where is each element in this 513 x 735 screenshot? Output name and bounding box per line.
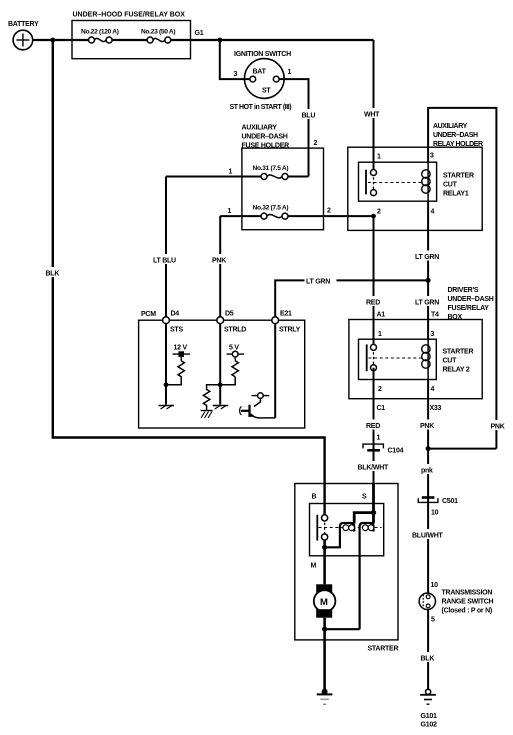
svg-text:C104: C104 (388, 448, 404, 455)
svg-text:E21: E21 (280, 311, 292, 318)
under-hood fuse/relay box (72, 12, 191, 59)
svg-text:STARTER: STARTER (443, 349, 474, 356)
svg-text:4: 4 (431, 386, 435, 393)
motor M (311, 547, 336, 617)
solenoid coil 2 (hold-in) (325, 523, 374, 629)
svg-text:UNDER–DASH: UNDER–DASH (242, 134, 288, 141)
svg-text:FUSE HOLDER: FUSE HOLDER (242, 143, 290, 150)
wire RED (relay2 pin2 to C104) (365, 368, 385, 444)
svg-text:12 V: 12 V (174, 345, 188, 352)
svg-text:STRLD: STRLD (224, 327, 246, 334)
resistor (STRLD pull-up) (220, 361, 238, 385)
wire LT BLU (152, 177, 180, 318)
wire PNK (211, 216, 230, 317)
solenoid coil 1 (pull-in) (325, 523, 355, 547)
svg-text:2: 2 (314, 140, 318, 147)
wire between fuses (112, 39, 150, 41)
resistor (STS pull-up) (166, 361, 184, 385)
svg-text:DRIVER'S: DRIVER'S (448, 287, 479, 294)
fuse No.22 (120 A) (81, 29, 119, 44)
svg-text:1: 1 (228, 208, 232, 215)
svg-text:UNDER–DASH: UNDER–DASH (433, 132, 478, 139)
wire BLK/WHT (C104 to starter S) (357, 450, 391, 512)
node LT GRN junction (426, 278, 431, 283)
PCM terminal D5 (STRLD) (217, 311, 246, 334)
svg-text:BLU: BLU (302, 113, 316, 120)
svg-text:CUT: CUT (443, 182, 458, 189)
PCM box (139, 311, 305, 428)
svg-text:No.22 (120 A): No.22 (120 A) (81, 29, 119, 36)
wire X33 / PNK (relay2 pin4 down) (419, 380, 442, 498)
svg-text:ST: ST (262, 88, 271, 95)
svg-text:C501: C501 (442, 498, 458, 505)
node G1 / wire to ignition and WHT drop (171, 30, 374, 40)
svg-text:LT GRN: LT GRN (415, 254, 439, 261)
driver's under-dash fuse/relay box (349, 287, 494, 399)
wire battery to fuse box (top feed) (33, 39, 92, 41)
svg-text:5 V: 5 V (229, 345, 239, 352)
svg-text:No.31 (7.5 A): No.31 (7.5 A) (253, 165, 289, 172)
node STS junction (164, 382, 169, 387)
svg-text:5: 5 (431, 617, 435, 624)
ground (PCM STRLD) (213, 406, 229, 410)
svg-text:CUT: CUT (443, 358, 458, 365)
wire S thick path (354, 484, 376, 524)
svg-text:LT GRN: LT GRN (415, 300, 439, 307)
ground G101/G102 (420, 689, 437, 728)
svg-text:FUSE/RELAY: FUSE/RELAY (448, 305, 490, 312)
svg-text:BAT: BAT (253, 69, 267, 76)
svg-text:3: 3 (431, 331, 435, 338)
svg-text:4: 4 (431, 209, 435, 216)
svg-text:AUXILIARY: AUXILIARY (433, 123, 468, 130)
wire motor to ground (322, 618, 327, 692)
svg-text:BATTERY: BATTERY (8, 21, 39, 28)
node battery junction (50, 38, 55, 43)
PCM terminal E21 (STRLY) (272, 311, 301, 334)
fuse No.23 (50 A) (141, 29, 175, 44)
ground (PCM STS) (159, 406, 175, 410)
wire WHT (drop to relay 1 pin 1) (363, 40, 384, 173)
svg-text:10: 10 (431, 582, 439, 589)
node solenoid contact junction (322, 540, 327, 550)
wire LT GRN horizontal to PCM E21 (275, 275, 428, 317)
svg-text:(Closed : P or N): (Closed : P or N) (442, 608, 492, 615)
svg-text:RELAY HOLDER: RELAY HOLDER (433, 141, 483, 148)
svg-text:RELAY 2: RELAY 2 (443, 367, 470, 374)
svg-text:WHT: WHT (364, 112, 380, 119)
wire to ignition switch terminal 3 (220, 40, 250, 79)
wire relay1 pin4 / LT GRN vertical (414, 201, 443, 339)
wire BLK (to ground G101/G102) (420, 610, 438, 690)
svg-text:1: 1 (378, 331, 382, 338)
svg-text:STARTER: STARTER (368, 646, 399, 653)
svg-text:D4: D4 (171, 311, 180, 318)
battery (8, 21, 39, 50)
svg-text:X33: X33 (430, 405, 442, 412)
svg-text:1: 1 (229, 169, 233, 176)
wire PNK (right side label) (489, 420, 508, 431)
connector C104 (363, 444, 404, 454)
svg-text:2: 2 (378, 386, 382, 393)
svg-text:T4: T4 (431, 312, 439, 319)
wire RED (relay1 pin2 down to relay2 pin1) (365, 216, 385, 347)
svg-text:2: 2 (377, 209, 381, 216)
svg-text:PNK: PNK (420, 423, 434, 430)
chassis ground (divider) (201, 411, 213, 419)
svg-text:RED: RED (366, 300, 380, 307)
svg-text:ST HOT in START (III): ST HOT in START (III) (230, 104, 292, 111)
svg-text:STRLY: STRLY (279, 327, 301, 334)
auxiliary under-dash relay holder (348, 123, 483, 230)
relay starter cut relay 1 (359, 153, 474, 216)
svg-text:A1: A1 (377, 312, 386, 319)
svg-text:LT GRN: LT GRN (306, 279, 330, 286)
transmission range switch (419, 590, 493, 624)
svg-text:BOX: BOX (448, 314, 463, 321)
svg-text:LT BLU: LT BLU (153, 258, 176, 265)
svg-text:STARTER: STARTER (443, 173, 474, 180)
svg-text:TRANSMISSION: TRANSMISSION (442, 590, 493, 597)
wire BLU/WHT (411, 502, 446, 593)
svg-text:BLK: BLK (421, 656, 435, 663)
svg-text:UNDER–DASH: UNDER–DASH (448, 296, 494, 303)
wire relay1 pin3 to PNK right drop (428, 108, 496, 449)
svg-text:G101: G101 (421, 713, 437, 720)
svg-text:PNK: PNK (491, 424, 505, 431)
svg-text:IGNITION SWITCH: IGNITION SWITCH (234, 51, 291, 58)
node PNK junction (426, 446, 497, 451)
starter box (295, 484, 399, 653)
svg-text:No.32 (7.5 A): No.32 (7.5 A) (253, 205, 289, 212)
transistor (STRLY driver) (240, 393, 276, 418)
svg-text:UNDER–HOOD FUSE/RELAY BOX: UNDER–HOOD FUSE/RELAY BOX (73, 12, 186, 19)
svg-text:RED: RED (366, 423, 380, 430)
svg-text:B: B (312, 494, 317, 501)
svg-text:M: M (311, 563, 317, 570)
resistor (STRLD lower divider) (203, 385, 220, 410)
ground (starter) (317, 689, 333, 705)
fuse No.32 (7.5 A) (220, 205, 373, 220)
wire STS internal (165, 324, 167, 405)
svg-text:BLK: BLK (46, 271, 60, 278)
wire BLU (ignition 1 to fuse holder pin 2) (279, 79, 318, 176)
svg-text:2: 2 (327, 208, 331, 215)
auxiliary under-dash fuse holder (242, 125, 324, 230)
svg-text:C1: C1 (377, 405, 386, 412)
svg-text:BLK/WHT: BLK/WHT (358, 465, 389, 472)
svg-text:G102: G102 (421, 722, 437, 729)
node ignition tap junction (217, 38, 222, 43)
wire STRLD internal (219, 324, 221, 405)
node STRLD junction (218, 382, 223, 387)
svg-text:S: S (362, 494, 367, 501)
svg-text:RANGE SWITCH: RANGE SWITCH (442, 599, 494, 606)
starter solenoid contacts (317, 515, 381, 541)
svg-text:3: 3 (430, 153, 434, 160)
svg-text:3: 3 (234, 71, 238, 78)
12 V pull-up source (173, 345, 191, 361)
fuse No.31 (7.5 A) (166, 165, 309, 180)
connector C501 (418, 498, 458, 517)
svg-text:1: 1 (377, 154, 381, 161)
ignition switch (230, 51, 292, 111)
svg-text:AUXILIARY: AUXILIARY (242, 125, 278, 132)
relay starter cut relay 2 (359, 331, 474, 393)
svg-text:1: 1 (377, 435, 381, 442)
svg-text:1: 1 (288, 69, 292, 76)
PCM terminal D4 (STS) (163, 311, 184, 334)
svg-text:10: 10 (431, 510, 439, 517)
svg-text:D5: D5 (225, 311, 234, 318)
svg-text:RELAY1: RELAY1 (443, 191, 469, 198)
starter solenoid box (310, 494, 384, 556)
svg-text:No.23 (50 A): No.23 (50 A) (141, 29, 175, 36)
svg-text:PCM: PCM (141, 311, 156, 318)
wire BLK (battery to starter B) (45, 40, 325, 518)
svg-text:M: M (320, 597, 328, 608)
svg-text:G1: G1 (195, 30, 204, 37)
svg-text:pnk: pnk (421, 468, 433, 475)
svg-text:STS: STS (170, 327, 183, 334)
node relay1 pin2 junction (371, 214, 376, 219)
svg-text:BLU/WHT: BLU/WHT (412, 533, 443, 540)
svg-text:PNK: PNK (212, 258, 226, 265)
wire STRLY internal (274, 324, 276, 418)
5 V pull-up source (227, 345, 245, 361)
